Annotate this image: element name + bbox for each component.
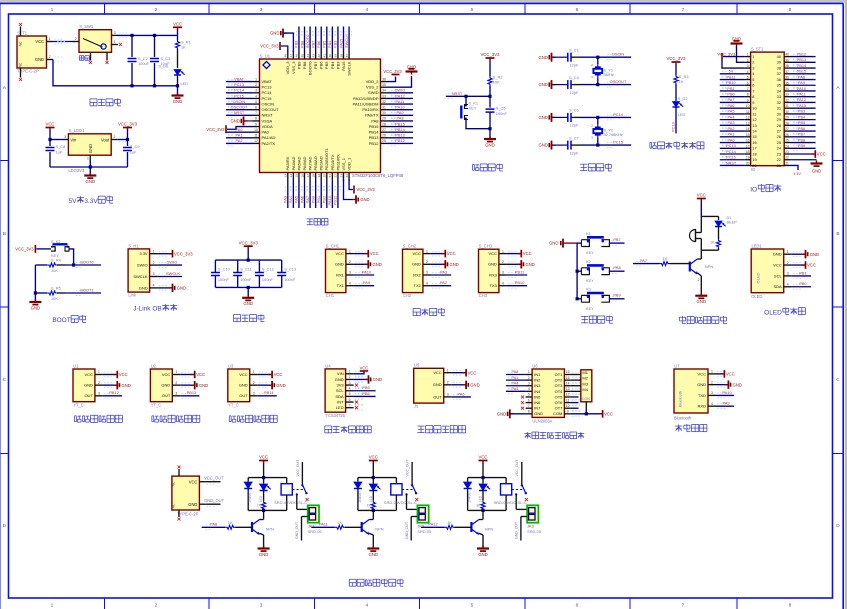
svg-text:OUT: OUT — [162, 393, 171, 398]
svg-text:1: 1 — [787, 250, 789, 254]
svg-text:VCC_3V3: VCC_3V3 — [206, 127, 225, 132]
mcu bottom pin 19 PB1/AD — [320, 173, 322, 182]
resistor relay led 1K JK2 — [372, 490, 374, 501]
mcu bottom pin 17 PA7/AD — [309, 173, 311, 182]
svg-text:4: 4 — [349, 386, 351, 390]
svg-text:PB10: PB10 — [726, 81, 735, 85]
svg-text:20: 20 — [323, 174, 327, 178]
svg-text:13: 13 — [566, 387, 570, 391]
wire io vcc3v3 branch pin3 — [722, 61, 745, 68]
svg-text:PA8: PA8 — [396, 116, 403, 121]
svg-text:3: 3 — [253, 392, 255, 396]
svg-text:29: 29 — [777, 117, 781, 122]
svg-text:VCC_3V3: VCC_3V3 — [357, 187, 376, 192]
svg-text:S_CH1: S_CH1 — [326, 244, 340, 249]
svg-text:5: 5 — [471, 7, 474, 13]
green connector JK3 SRD-05 — [527, 505, 538, 522]
wire io net PB3 — [790, 113, 816, 115]
wire vertical gnd branch boot — [34, 265, 36, 301]
svg-text:2: 2 — [698, 278, 700, 282]
pin SW1 bottom stubs — [90, 52, 92, 60]
wire net PB14 — [388, 131, 414, 133]
wire S_CH1 tx net PA9 — [354, 285, 374, 287]
svg-text:14: 14 — [289, 174, 293, 178]
svg-text:100nF: 100nF — [496, 111, 508, 116]
wire VDD_2 to vcc3v3 — [388, 77, 396, 82]
flyback diode 1N4007 JK2 — [357, 478, 359, 482]
svg-text:1: 1 — [426, 249, 428, 253]
svg-text:1: 1 — [98, 370, 100, 374]
svg-text:NPN: NPN — [485, 527, 493, 532]
svg-text:30: 30 — [382, 111, 386, 115]
svg-text:VCC: VCC — [196, 372, 205, 377]
svg-text:GND: GND — [84, 383, 93, 388]
svg-text:22: 22 — [785, 156, 789, 160]
svg-text:INT: INT — [337, 399, 344, 404]
wire emitter relay JK3 — [479, 533, 483, 535]
svg-text:1K: 1K — [181, 45, 186, 50]
svg-text:NC: NC — [172, 481, 176, 486]
wire VCC_OUT label — [199, 481, 205, 483]
svg-text:VCC: VCC — [447, 251, 456, 256]
resistor S_R2 10K — [488, 76, 492, 85]
svg-text:17: 17 — [746, 144, 750, 148]
wire OT5-OT7 stubs — [571, 396, 579, 398]
svg-text:10: 10 — [746, 104, 750, 108]
svg-text:1K: 1K — [228, 520, 233, 525]
svg-text:VCC: VCC — [478, 455, 487, 460]
svg-text:GND: GND — [122, 383, 131, 388]
svg-text:PA9: PA9 — [396, 110, 403, 115]
svg-text:GND: GND — [812, 169, 821, 174]
io header right pin 31 — [784, 107, 790, 109]
svg-text:IN1: IN1 — [534, 372, 541, 377]
svg-text:PA10: PA10 — [362, 269, 372, 274]
svg-text:SRD-05: SRD-05 — [527, 529, 541, 534]
wire T1 VCC to SW1 — [53, 41, 73, 43]
wire OT4 to motor — [571, 390, 581, 392]
relay coil dashed link JK3 — [512, 489, 524, 491]
wire oled scl net PB1 — [792, 275, 811, 277]
wire net PA4 vertical bottom — [292, 181, 294, 208]
pin T1 shield top — [20, 27, 22, 37]
svg-text:1K: 1K — [710, 240, 715, 244]
svg-text:VSS_1: VSS_1 — [341, 157, 346, 170]
title liquid module U3 — [228, 416, 230, 422]
svg-text:BOOT0: BOOT0 — [305, 34, 310, 48]
io header left pin 16 — [745, 142, 751, 144]
svg-text:PA5/AD: PA5/AD — [296, 156, 301, 170]
svg-text:1N4007: 1N4007 — [468, 491, 472, 503]
wire bottom rail GND net — [53, 60, 178, 86]
svg-text:GND_OUT: GND_OUT — [405, 521, 409, 539]
title lvbo dianlu — [233, 314, 240, 316]
svg-text:OT4: OT4 — [555, 389, 564, 394]
svg-text:GND: GND — [243, 301, 253, 306]
zone letters left — [1, 160, 9, 162]
svg-text:5: 5 — [752, 77, 754, 82]
svg-text:VIN: VIN — [337, 371, 344, 376]
mcu right pin 26 PB13 — [381, 137, 388, 139]
pin LDO Vin 3 — [62, 139, 69, 141]
wire net PB11 vertical bottom — [337, 181, 339, 208]
svg-text:PA8: PA8 — [371, 118, 379, 123]
svg-text:BOOT: BOOT — [52, 317, 70, 324]
wire jlink vcc — [158, 253, 172, 255]
svg-text:15: 15 — [566, 376, 570, 380]
svg-text:VCC: VCC — [697, 193, 706, 198]
svg-text:31: 31 — [777, 106, 781, 111]
svg-text:VBAT: VBAT — [234, 76, 244, 81]
svg-text:24: 24 — [345, 174, 349, 178]
wire io net PA0 — [720, 142, 745, 144]
capacitor S_C11 100nF — [237, 260, 239, 272]
wire net OSCOUT — [580, 84, 631, 86]
svg-text:18: 18 — [311, 174, 315, 178]
mcu top pin 48 VDD_3 — [287, 51, 289, 60]
svg-text:PC13: PC13 — [262, 85, 273, 90]
alarm bottom rail — [701, 249, 718, 251]
wire key net PB8 — [609, 270, 624, 272]
mcu right pin 30 PA9/TX — [381, 114, 388, 116]
wire net PA3 vertical bottom — [287, 181, 289, 208]
U4 pin3 nc — [355, 384, 358, 387]
svg-text:3: 3 — [752, 65, 754, 70]
svg-text:1K: 1K — [367, 504, 372, 508]
svg-text:SWCLK: SWCLK — [133, 274, 148, 279]
relay switch arm JK1 — [302, 485, 306, 494]
svg-text:PA0: PA0 — [262, 130, 270, 135]
svg-text:VCC: VCC — [162, 372, 171, 377]
flyback diode 1N4007 JK3 — [467, 478, 469, 482]
wire NRST — [446, 95, 490, 97]
svg-text:GND: GND — [538, 115, 548, 120]
wire U5 gnd — [452, 384, 465, 386]
svg-text:20: 20 — [746, 161, 750, 165]
svg-text:PA15: PA15 — [797, 104, 806, 108]
wire VDD_1 to vcc3v3 — [349, 180, 353, 190]
svg-text:10K: 10K — [51, 296, 58, 301]
svg-text:5V: 5V — [68, 198, 77, 205]
svg-text:3: 3 — [260, 7, 263, 13]
svg-text:OSCOUT: OSCOUT — [231, 105, 248, 110]
svg-text:PA12: PA12 — [395, 93, 404, 98]
svg-text:PB12: PB12 — [395, 138, 405, 143]
crystal S_Y1 8MHz — [596, 56, 599, 59]
green connector JK2 SRD-05 — [417, 505, 428, 522]
svg-text:IN7: IN7 — [534, 406, 541, 411]
wire net PA7 alarm — [633, 263, 660, 265]
svg-text:40: 40 — [785, 53, 789, 57]
svg-text:GND: GND — [538, 143, 548, 148]
svg-text:35: 35 — [382, 83, 386, 87]
svg-text:GND: GND — [538, 82, 548, 87]
svg-text:8: 8 — [255, 117, 257, 121]
wire vcc3v3 to VDD_3 — [281, 46, 288, 52]
svg-text:1K: 1K — [257, 504, 262, 508]
svg-text:M4: M4 — [582, 387, 588, 392]
svg-text:5: 5 — [471, 602, 474, 608]
title bluetooth — [675, 425, 682, 427]
mcu right pin 25 PB12 — [381, 142, 388, 144]
svg-text:VDD_2: VDD_2 — [366, 79, 380, 84]
svg-text:31: 31 — [785, 104, 789, 108]
svg-text:VCC: VCC — [726, 372, 735, 377]
svg-text:PA5: PA5 — [728, 110, 735, 114]
wire U6 in net PA1 — [506, 379, 526, 381]
svg-text:PB8: PB8 — [798, 138, 805, 142]
wire net PB3 vertical — [337, 27, 339, 51]
wire NO contact to connector JK2 — [406, 494, 408, 509]
svg-text:PC14: PC14 — [726, 150, 736, 154]
U6 pin 5 nc — [521, 395, 524, 398]
wire gnd to VSS_3 — [283, 33, 293, 52]
svg-text:1: 1 — [51, 602, 54, 608]
svg-text:2: 2 — [528, 376, 530, 380]
svg-text:VCC: VCC — [817, 152, 826, 157]
svg-text:OUT: OUT — [433, 394, 442, 399]
svg-text:PA15: PA15 — [341, 61, 346, 71]
svg-text:NC: NC — [19, 41, 23, 46]
svg-text:1: 1 — [752, 54, 754, 59]
svg-text:7: 7 — [682, 7, 685, 13]
svg-text:M2: M2 — [582, 376, 588, 381]
svg-text:PB10: PB10 — [515, 280, 525, 285]
svg-text:GND: GND — [697, 299, 707, 304]
svg-text:GND: GND — [35, 57, 44, 62]
gnd port io pin22 — [790, 159, 817, 161]
wire boot0 net — [72, 263, 75, 266]
svg-text:3: 3 — [114, 31, 116, 35]
svg-text:KEY: KEY — [469, 105, 477, 110]
svg-text:VCC: VCC — [369, 455, 378, 460]
svg-text:3.3V: 3.3V — [139, 251, 148, 256]
svg-text:PA11/USB/DM: PA11/USB/DM — [353, 101, 379, 106]
green connector JK1 SRD-05 — [308, 505, 319, 522]
title dianyuan dianlu — [90, 98, 97, 100]
wire VCC to rail — [177, 30, 179, 38]
svg-text:LED: LED — [336, 405, 344, 410]
svg-text:1K: 1K — [679, 79, 684, 84]
wire net SWIO — [388, 92, 414, 94]
svg-text:PA10: PA10 — [797, 87, 806, 91]
svg-text:BOOT1: BOOT1 — [80, 287, 93, 292]
resistor relay led 1K JK3 — [482, 490, 484, 501]
wire to R2 — [489, 61, 491, 77]
svg-text:TCS34725: TCS34725 — [325, 413, 345, 418]
gnd port S_C6 — [551, 113, 553, 122]
mcu S_U1 STM32F103C8T6 — [260, 59, 381, 173]
wire io net PC13 — [720, 147, 745, 149]
svg-text:IN5: IN5 — [534, 394, 541, 399]
svg-text:PB8: PB8 — [299, 41, 304, 48]
vcc port io pin23 — [790, 153, 814, 155]
svg-text:2: 2 — [255, 83, 257, 87]
svg-text:GND: GND — [360, 197, 369, 202]
svg-text:NC: NC — [19, 62, 23, 67]
io header right pin 21 — [784, 164, 790, 166]
mcu top pin 44 BOOT0 — [309, 51, 311, 60]
svg-text:Bluetooth: Bluetooth — [679, 391, 683, 407]
wire io pin21 net 3.3V — [790, 165, 798, 170]
svg-text:OT6: OT6 — [555, 400, 564, 405]
svg-text:PB0/AD: PB0/AD — [313, 156, 318, 170]
capacitor S_C9 1uF — [123, 147, 132, 149]
svg-text:100uF: 100uF — [138, 61, 150, 66]
svg-text:GND: GND — [199, 383, 208, 388]
svg-text:GND: GND — [538, 55, 548, 60]
svg-text:GND: GND — [139, 285, 148, 290]
svg-text:10: 10 — [566, 404, 570, 408]
svg-text:GND: GND — [173, 99, 183, 104]
wire io net PA10 — [790, 90, 816, 92]
svg-text:GND: GND — [230, 119, 240, 124]
wire net OSCIN — [580, 56, 631, 58]
wire io net PA12 — [790, 101, 816, 103]
svg-text:PA6: PA6 — [728, 104, 735, 108]
svg-text:KEY: KEY — [586, 250, 594, 255]
io header left pin 20 — [745, 164, 751, 166]
svg-text:NRST: NRST — [234, 110, 245, 115]
driver U6 ULN2003A — [532, 369, 564, 417]
io header right pin 23 — [784, 153, 790, 155]
wire ldo bottom rail — [50, 166, 128, 168]
svg-text:K2: K2 — [586, 259, 591, 264]
wire io net PB9 — [790, 147, 816, 149]
wire LED down net PC13 — [675, 107, 677, 133]
svg-text:U1: U1 — [73, 363, 79, 368]
svg-text:26: 26 — [785, 133, 789, 137]
module U5 ir count — [414, 368, 444, 403]
wire net PB7 vertical — [315, 27, 317, 51]
svg-text:GND: GND — [497, 411, 507, 416]
svg-text:GND: GND — [369, 552, 379, 557]
capacitor S_C12 100nF — [258, 260, 260, 272]
svg-text:PB15: PB15 — [797, 70, 806, 74]
wire U7 vcc — [716, 373, 723, 375]
svg-text:LDO3V3: LDO3V3 — [68, 168, 84, 173]
wire net OSCOUT — [226, 109, 253, 111]
wire net PB1 vertical bottom — [320, 181, 322, 208]
wire 3v3 down to Vout — [127, 130, 129, 146]
svg-text:6: 6 — [576, 602, 579, 608]
gnd port S_C4 — [551, 80, 553, 89]
svg-text:3: 3 — [528, 381, 530, 385]
svg-text:2: 2 — [155, 7, 158, 13]
gnd port S_C7 — [551, 141, 553, 150]
svg-text:M3: M3 — [582, 381, 588, 386]
svg-text:VSS_2: VSS_2 — [366, 85, 379, 90]
vcc port stepper — [599, 413, 603, 415]
wire U7 gnd — [716, 384, 727, 386]
svg-text:VDD_1: VDD_1 — [346, 157, 351, 171]
svg-text:S_R5: S_R5 — [51, 286, 61, 291]
wire io net PB13 — [790, 61, 816, 63]
svg-text:3: 3 — [64, 135, 66, 139]
svg-text:PB0: PB0 — [727, 93, 734, 97]
svg-text:PB6: PB6 — [362, 391, 369, 396]
svg-text:IN2: IN2 — [534, 378, 541, 383]
svg-text:J-Link OB: J-Link OB — [133, 306, 161, 313]
svg-text:38: 38 — [777, 65, 781, 70]
io header left pin 15 — [745, 136, 751, 138]
wire io net 5V — [720, 73, 745, 75]
svg-text:PA12/USB/DP: PA12/USB/DP — [353, 96, 379, 101]
svg-text:VSSA: VSSA — [262, 118, 273, 123]
wire io net PB8 — [790, 142, 816, 144]
svg-text:SWIO: SWIO — [395, 88, 405, 93]
svg-text:PB5: PB5 — [798, 121, 805, 125]
svg-text:GND: GND — [526, 262, 535, 267]
LED S_D6 — [177, 52, 179, 68]
wire U3 vcc — [258, 374, 271, 376]
wire S_CH1 vcc — [354, 253, 367, 255]
svg-text:12: 12 — [566, 393, 570, 397]
svg-text:46: 46 — [295, 54, 299, 58]
wire io net PB12 — [790, 56, 816, 58]
svg-text:29: 29 — [785, 116, 789, 120]
mcu left pin 2 PC13 — [253, 86, 260, 88]
svg-text:GND: GND — [412, 262, 421, 267]
wire U4 gnd — [354, 378, 368, 380]
svg-text:PB11: PB11 — [726, 75, 735, 79]
svg-text:1K: 1K — [337, 520, 342, 525]
wire U2 vcc — [180, 374, 193, 376]
svg-text:IN4: IN4 — [534, 389, 541, 394]
svg-text:PB4: PB4 — [327, 40, 332, 48]
title chuankou dianlu — [413, 307, 420, 309]
module U7 bluetooth — [674, 369, 708, 413]
svg-text:VCC: VCC — [274, 372, 283, 377]
led indicator relay JK2 — [372, 476, 375, 479]
wire io net PB4 — [790, 119, 816, 121]
svg-text:34: 34 — [785, 87, 789, 91]
svg-text:VCC: VCC — [523, 251, 532, 256]
ground power circuit — [177, 93, 179, 96]
svg-text:PA4: PA4 — [728, 115, 735, 119]
wire net PB5 vertical — [326, 27, 328, 51]
svg-text:1: 1 — [87, 157, 89, 161]
svg-text:IO: IO — [750, 186, 757, 193]
svg-text:SCL: SCL — [774, 273, 783, 278]
svg-text:PC14: PC14 — [234, 88, 245, 93]
svg-text:VCC_3V3: VCC_3V3 — [15, 246, 34, 251]
svg-text:2: 2 — [447, 381, 449, 385]
pin typec relay top — [178, 469, 180, 476]
mcu top pin 47 VSS_3 — [292, 51, 294, 60]
wire U7 txd net PA10 — [716, 394, 734, 396]
svg-text:VCC_3V3: VCC_3V3 — [239, 240, 259, 245]
wire net PC13 — [226, 86, 253, 88]
mcu left pin 12 PA2/TX — [253, 142, 260, 144]
wire net PA0 — [226, 131, 253, 133]
wire net PC14 — [226, 92, 253, 94]
svg-text:GND: GND — [450, 262, 459, 267]
svg-text:1N4007: 1N4007 — [248, 491, 252, 503]
svg-text:2: 2 — [175, 381, 177, 385]
svg-text:VCC: VCC — [698, 371, 707, 376]
svg-text:PB9: PB9 — [613, 293, 620, 298]
transistor NPN alarm — [689, 262, 691, 272]
pin T1 GND 2 — [47, 59, 54, 61]
svg-text:LED: LED — [259, 495, 263, 502]
svg-text:GND: GND — [373, 377, 382, 382]
svg-text:2: 2 — [349, 375, 351, 379]
mcu right pin 33 PA12/USB/DP — [381, 97, 388, 99]
svg-text:GND: GND — [188, 502, 197, 507]
io header right pin 26 — [784, 136, 790, 138]
wire S_CH2 vcc — [431, 253, 444, 255]
